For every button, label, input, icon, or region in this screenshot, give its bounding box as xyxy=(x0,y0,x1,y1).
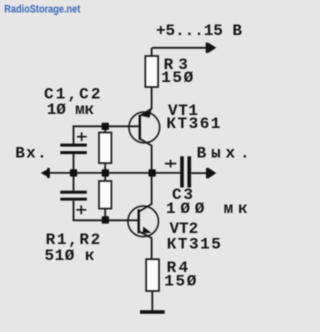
svg-text:КТ315: КТ315 xyxy=(167,235,221,253)
svg-text:+5...15 В: +5...15 В xyxy=(156,22,242,40)
svg-text:15Ø: 15Ø xyxy=(161,69,193,87)
svg-text:Вх.: Вх. xyxy=(15,144,47,162)
svg-text:15Ø: 15Ø xyxy=(164,273,196,291)
svg-text:1Ø мк: 1Ø мк xyxy=(47,101,95,119)
svg-text:51Ø к: 51Ø к xyxy=(45,247,95,265)
svg-text:КТ361: КТ361 xyxy=(166,115,220,133)
svg-text:RadioStorage.net: RadioStorage.net xyxy=(4,3,80,15)
svg-text:R1,R2: R1,R2 xyxy=(46,231,101,249)
